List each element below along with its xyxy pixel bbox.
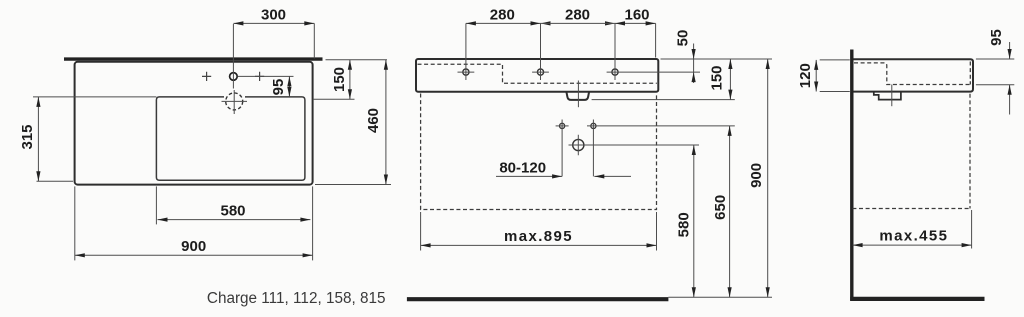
drain outlet (side view)	[874, 92, 901, 100]
dimension 280 left	[466, 22, 541, 24]
floor line (side view)	[850, 297, 984, 301]
svg-text:50: 50	[674, 30, 691, 47]
svg-text:Charge 111, 112, 158, 815: Charge 111, 112, 158, 815	[207, 290, 386, 307]
svg-text:max.895: max.895	[504, 228, 573, 245]
svg-text:580: 580	[676, 212, 693, 237]
dimension 150 (top view)	[326, 59, 388, 61]
basin bowl inner rim (top view)	[156, 97, 305, 180]
dimension 50	[693, 44, 695, 84]
dimension 95 (side view)	[976, 58, 1014, 60]
top edge extension line (front view)	[661, 58, 773, 60]
dimension 160	[615, 22, 656, 24]
drain outlet centerline	[577, 81, 579, 108]
dimension max.895	[421, 212, 657, 251]
svg-text:160: 160	[624, 7, 649, 24]
dimension max.455	[971, 210, 973, 249]
svg-text:580: 580	[220, 202, 245, 219]
drain outlet extension line	[592, 99, 735, 101]
dimension 580 (top view)	[155, 186, 157, 224]
dimension 150 (front view)	[729, 59, 731, 100]
svg-text:150: 150	[708, 65, 725, 90]
washbasin body (front view)	[416, 59, 658, 92]
svg-text:120: 120	[797, 63, 814, 88]
svg-text:650: 650	[712, 195, 729, 220]
washbasin outer rim (top view)	[75, 62, 313, 185]
tap hole 1 (front view)	[463, 69, 469, 75]
dimension 80-120	[496, 175, 562, 177]
drain hole centerlines	[222, 90, 248, 114]
tap hole vertical centerline	[232, 24, 234, 89]
svg-text:80-120: 80-120	[499, 160, 546, 177]
svg-text:280: 280	[565, 7, 590, 24]
extension line from bowl rim to dim 315	[33, 96, 156, 98]
hidden bowl contour (front view)	[418, 64, 657, 83]
alternative tap hole right (+)	[255, 72, 264, 81]
dimension 95 (tap to drain)	[288, 76, 290, 97]
svg-text:460: 460	[365, 108, 382, 133]
dimension 300	[233, 22, 314, 24]
dimension 120	[820, 59, 850, 61]
tap hole extension lines	[466, 23, 656, 80]
alternative tap hole left (+)	[202, 72, 211, 81]
dimension 460	[315, 184, 391, 186]
svg-text:900: 900	[748, 163, 765, 188]
hidden front edge line (side view)	[852, 94, 970, 209]
svg-text:900: 900	[181, 238, 206, 255]
svg-text:95: 95	[988, 29, 1005, 46]
washbasin body (side view)	[853, 59, 973, 91]
svg-text:95: 95	[270, 79, 287, 96]
floor extension line	[668, 296, 772, 298]
drain hole (dashed circle)	[226, 93, 243, 110]
dimension 315	[37, 180, 74, 182]
wall line (side view)	[850, 50, 853, 301]
wall edge line (top view)	[64, 57, 323, 60]
dimension 650	[729, 126, 731, 297]
tap hole 3 (front view)	[612, 69, 618, 75]
tap hole 2 (front view)	[537, 69, 543, 75]
dimension 900 (front view)	[767, 59, 769, 297]
fixing hole left	[560, 123, 565, 128]
svg-text:315: 315	[19, 124, 36, 149]
dimension 900 (top view)	[74, 186, 76, 260]
dimension 280 right	[541, 21, 551, 25]
svg-text:280: 280	[490, 7, 515, 24]
tap hole horizontal centerline	[238, 75, 294, 77]
siphon center (front view)	[573, 139, 584, 150]
fixing hole right	[591, 123, 596, 128]
hidden bowl contour (side view)	[854, 62, 970, 85]
dimension 580 (front view)	[693, 145, 695, 297]
drain outlet centerline (side view)	[891, 85, 893, 107]
drain outlet (front view)	[566, 92, 589, 100]
floor line (front view)	[407, 297, 669, 301]
tap hole	[230, 73, 238, 81]
svg-text:max.455: max.455	[879, 228, 948, 245]
svg-text:300: 300	[261, 7, 286, 24]
hidden installation box (front view)	[421, 94, 657, 210]
svg-text:150: 150	[331, 67, 348, 92]
